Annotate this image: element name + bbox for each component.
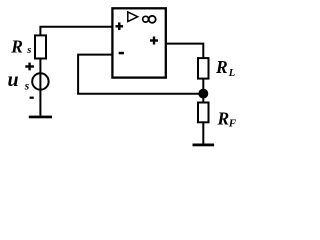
svg-text:L: L [228, 68, 235, 79]
svg-text:R: R [10, 37, 23, 57]
svg-text:u: u [8, 69, 19, 91]
svg-text:F: F [228, 118, 237, 130]
svg-text:s: s [26, 45, 31, 56]
svg-text:R: R [217, 108, 230, 128]
svg-text:R: R [215, 57, 228, 77]
svg-text:s: s [24, 81, 30, 93]
